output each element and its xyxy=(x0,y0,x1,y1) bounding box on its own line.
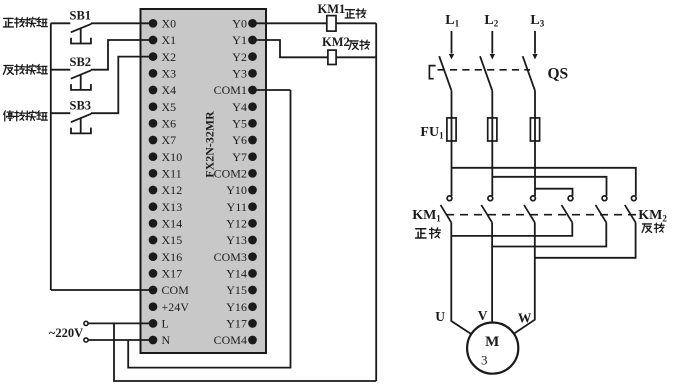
svg-text:X13: X13 xyxy=(162,200,183,214)
push button SB1 normally-open contact xyxy=(51,23,91,43)
PLC output terminal Y5 xyxy=(248,119,257,128)
wire KM1 coil to return bus xyxy=(336,22,376,24)
wire W phase to motor xyxy=(514,223,535,334)
PLC output terminal Y3 xyxy=(248,69,257,78)
svg-text:X2: X2 xyxy=(162,50,177,64)
wire phase L2 to KM2 contact 2 xyxy=(492,177,606,196)
PLC output terminal Y6 xyxy=(248,136,257,145)
svg-text:Y4: Y4 xyxy=(232,100,247,114)
svg-text:SB1: SB1 xyxy=(70,9,92,23)
svg-text:X14: X14 xyxy=(162,217,183,231)
svg-text:X5: X5 xyxy=(162,100,177,114)
PLC input terminal +24V xyxy=(149,302,158,311)
PLC input terminal X11 xyxy=(149,169,158,178)
PLC output terminal Y17 xyxy=(248,319,257,328)
svg-text:COM3: COM3 xyxy=(214,250,247,264)
svg-text:N: N xyxy=(162,333,171,347)
KM2 main contact pole 2 xyxy=(596,196,607,223)
PLC input terminal X14 xyxy=(149,219,158,228)
svg-text:Y15: Y15 xyxy=(226,283,247,297)
PLC output terminal Y10 xyxy=(248,186,257,195)
PLC output terminal Y15 xyxy=(248,286,257,295)
push button SB2 normally-open contact xyxy=(51,70,91,90)
fuse FU1 pole 3 xyxy=(530,118,539,141)
KM1 main contact pole 1 xyxy=(441,196,452,223)
PLC input terminal L xyxy=(149,319,158,328)
svg-text:Y14: Y14 xyxy=(226,267,247,281)
label KM2 function 反转 xyxy=(642,224,652,232)
wire bus to COM terminal xyxy=(51,289,150,291)
svg-text:COM4: COM4 xyxy=(214,333,247,347)
svg-text:X10: X10 xyxy=(162,150,183,164)
contactor coil KM1 xyxy=(327,16,336,32)
contactor coil KM2 xyxy=(328,50,336,64)
PLC output terminal Y12 xyxy=(248,219,257,228)
label reverse button 反转按钮 xyxy=(3,65,13,74)
svg-text:~220V: ~220V xyxy=(49,326,83,340)
svg-text:+24V: +24V xyxy=(162,300,190,314)
svg-text:M: M xyxy=(485,334,499,350)
PLC input terminal X1 xyxy=(149,36,158,45)
svg-text:X12: X12 xyxy=(162,183,183,197)
QS blade pole 3 xyxy=(523,56,535,90)
wire return bus to L supply xyxy=(114,323,376,381)
QS linkage dashed line xyxy=(438,69,531,71)
svg-text:KM2: KM2 xyxy=(322,35,350,49)
svg-text:X1: X1 xyxy=(162,33,177,47)
PLC output terminal COM1 xyxy=(248,86,257,95)
PLC input terminal X6 xyxy=(149,119,158,128)
svg-text:U: U xyxy=(435,309,445,324)
wire QS pole 2 through fuse to KM1 contact xyxy=(491,91,493,196)
svg-text:COM1: COM1 xyxy=(214,83,247,97)
supply terminal N (neutral) xyxy=(84,338,88,342)
PLC input terminal X4 xyxy=(149,86,158,95)
PLC input terminal COM xyxy=(149,286,158,295)
PLC input terminal X3 xyxy=(149,69,158,78)
svg-text:W: W xyxy=(518,310,532,325)
PLC output terminal Y4 xyxy=(248,102,257,111)
fuse FU1 pole 2 xyxy=(488,118,497,141)
supply terminal L (phase) xyxy=(84,321,88,325)
PLC output terminal Y1 xyxy=(248,36,257,45)
supply line L1 xyxy=(451,31,453,54)
wire left bus (buttons common) xyxy=(50,23,52,290)
push button SB3 normally-open contact xyxy=(51,113,91,133)
label stop button 停转按钮 xyxy=(4,111,14,121)
svg-text:X11: X11 xyxy=(162,167,182,181)
wire SB1 to X0 xyxy=(91,22,153,24)
svg-text:X17: X17 xyxy=(162,267,183,281)
supply line L2 xyxy=(491,31,493,54)
supply line L3 xyxy=(534,31,536,54)
svg-text:Y3: Y3 xyxy=(232,67,247,81)
PLC U1 FX2N-32MR body xyxy=(141,9,267,353)
wire SB2 to X1 xyxy=(91,40,153,70)
svg-text:X0: X0 xyxy=(162,17,177,31)
wire SB3 to X2 xyxy=(91,57,153,114)
label KM2 function 反转 xyxy=(349,41,359,49)
PLC input terminal X2 xyxy=(149,52,158,61)
wire KM2 pole2 to V line xyxy=(492,223,606,247)
PLC input terminal X5 xyxy=(149,102,158,111)
svg-text:Y7: Y7 xyxy=(232,150,247,164)
KM1 main contact pole 2 xyxy=(481,196,492,223)
wire Y0 to KM1 coil xyxy=(253,22,327,24)
label forward button 正转按钮 xyxy=(3,18,13,27)
svg-text:COM2: COM2 xyxy=(214,167,247,181)
svg-text:Y5: Y5 xyxy=(232,117,247,131)
svg-text:QS: QS xyxy=(548,66,569,83)
svg-text:Y11: Y11 xyxy=(227,200,247,214)
wire KM2 coil to return bus xyxy=(336,56,376,58)
PLC output terminal COM4 xyxy=(248,336,257,345)
svg-text:X6: X6 xyxy=(162,117,177,131)
svg-text:COM: COM xyxy=(162,283,190,297)
svg-text:Y13: Y13 xyxy=(226,233,247,247)
svg-text:Y10: Y10 xyxy=(226,183,247,197)
svg-text:SB2: SB2 xyxy=(70,55,92,69)
svg-text:V: V xyxy=(478,308,488,323)
PLC output terminal Y14 xyxy=(248,269,257,278)
wire phase L1 to KM2 contact 3 xyxy=(452,168,636,196)
KM1/KM2 linkage dashed line xyxy=(446,214,636,216)
svg-text:Y0: Y0 xyxy=(232,17,247,31)
svg-text:X15: X15 xyxy=(162,233,183,247)
svg-text:SB3: SB3 xyxy=(70,99,92,113)
wire V phase to motor xyxy=(491,223,493,323)
wire supply to N terminal xyxy=(88,339,153,341)
PLC input terminal X7 xyxy=(149,136,158,145)
PLC input terminal X15 xyxy=(149,236,158,245)
label KM1 function 正转 xyxy=(345,10,355,18)
wire phase L3 to KM2 contact 1 xyxy=(535,189,573,196)
svg-text:Y6: Y6 xyxy=(232,133,247,147)
svg-text:KM1: KM1 xyxy=(318,2,346,16)
QS blade pole 2 xyxy=(480,56,492,90)
PLC input terminal X0 xyxy=(149,19,158,28)
wire KM2 pole3 to W line xyxy=(535,223,636,258)
PLC input terminal X17 xyxy=(149,269,158,278)
wire N supply to COM1 xyxy=(128,90,290,368)
PLC output terminal Y13 xyxy=(248,236,257,245)
svg-text:Y12: Y12 xyxy=(226,217,247,231)
disconnect switch QS operating handle xyxy=(429,66,435,79)
wire KM2 pole1 to U line xyxy=(451,223,572,236)
PLC input terminal X13 xyxy=(149,202,158,211)
PLC output terminal COM3 xyxy=(248,252,257,261)
svg-text:L: L xyxy=(162,317,169,331)
fuse FU1 pole 1 xyxy=(447,118,456,141)
PLC output terminal Y11 xyxy=(248,202,257,211)
svg-text:Y1: Y1 xyxy=(232,33,247,47)
PLC output terminal Y0 xyxy=(248,19,257,28)
wire U phase to motor xyxy=(451,223,471,335)
PLC input terminal N xyxy=(149,336,158,345)
svg-text:X4: X4 xyxy=(162,83,177,97)
wire coil return bus vertical xyxy=(375,23,377,381)
wire COM1 out xyxy=(253,89,291,91)
QS blade pole 1 xyxy=(439,56,451,90)
PLC output terminal COM2 xyxy=(248,169,257,178)
KM2 main contact pole 1 xyxy=(562,196,573,223)
PLC input terminal X16 xyxy=(149,252,158,261)
PLC input terminal X10 xyxy=(149,152,158,161)
svg-text:Y16: Y16 xyxy=(226,300,247,314)
wire QS pole 1 through fuse to KM1 contact xyxy=(451,91,453,196)
PLC input terminal X12 xyxy=(149,186,158,195)
svg-text:X3: X3 xyxy=(162,67,177,81)
PLC output terminal Y16 xyxy=(248,302,257,311)
motor M 3-phase xyxy=(467,323,518,374)
svg-text:3: 3 xyxy=(481,353,488,368)
svg-text:X16: X16 xyxy=(162,250,183,264)
KM2 main contact pole 3 xyxy=(625,196,636,223)
wire supply to L terminal xyxy=(88,322,153,324)
wire QS pole 3 through fuse to KM1 contact xyxy=(534,91,536,196)
svg-text:Y2: Y2 xyxy=(232,50,247,64)
svg-text:Y17: Y17 xyxy=(226,317,247,331)
label KM1 function 正转 xyxy=(416,229,427,238)
KM1 main contact pole 3 xyxy=(524,196,535,223)
svg-text:X7: X7 xyxy=(162,133,177,147)
PLC output terminal Y7 xyxy=(248,152,257,161)
wire Y1 to KM2 coil xyxy=(253,40,328,57)
PLC output terminal Y2 xyxy=(248,52,257,61)
